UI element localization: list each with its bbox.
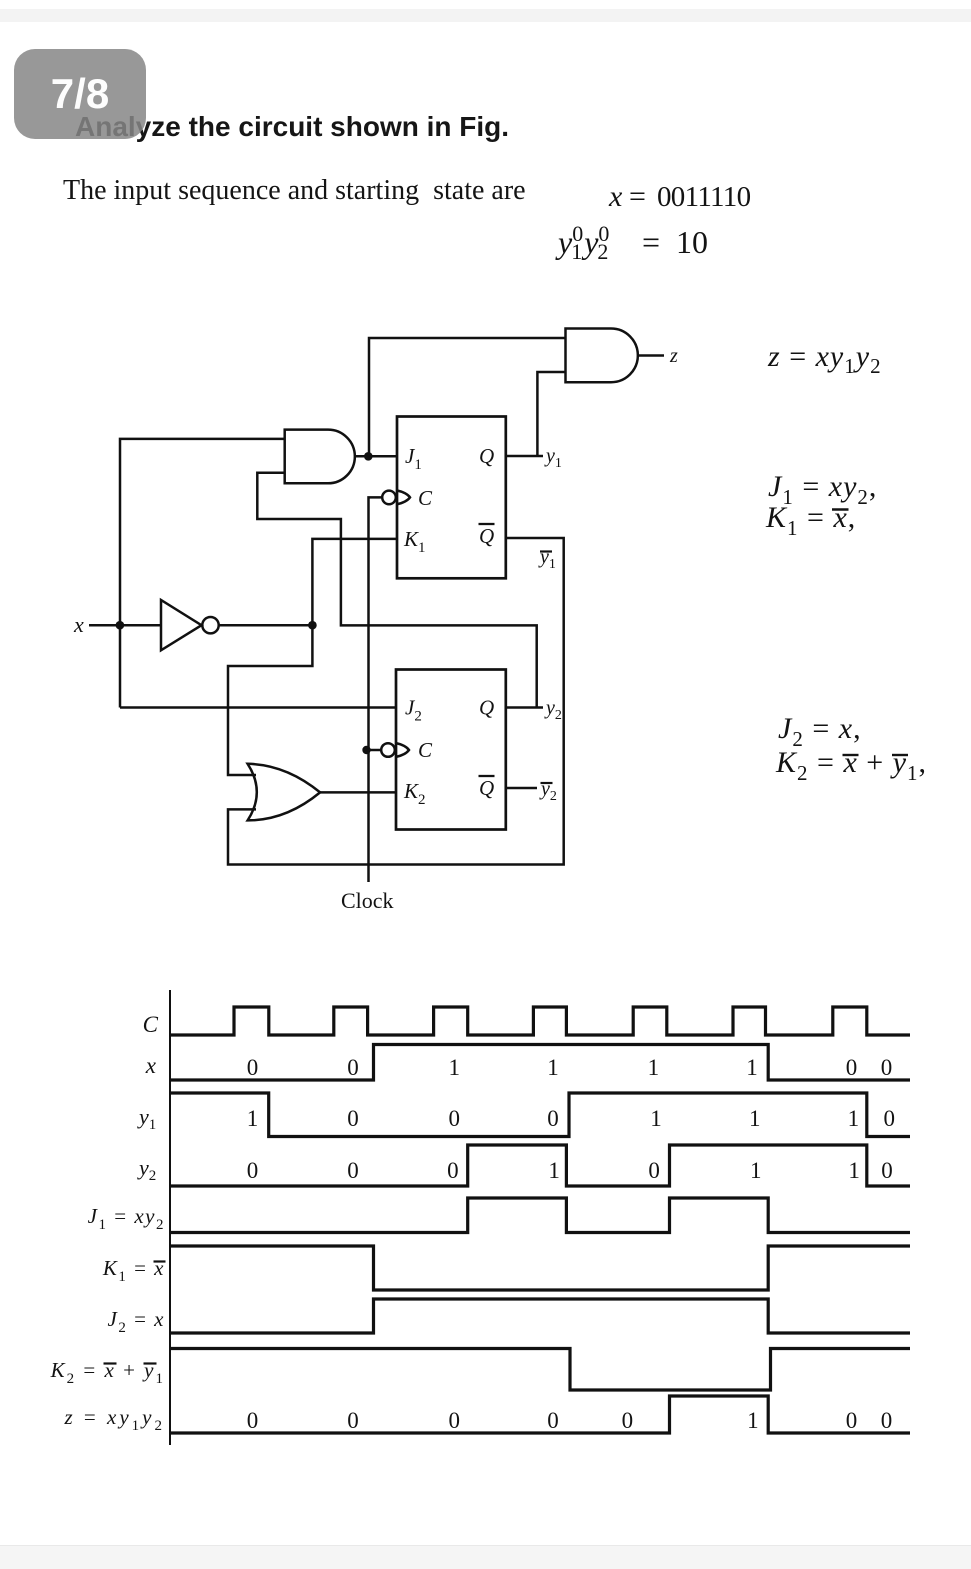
svg-text:J1: J1 (405, 444, 422, 473)
paragraph (63, 175, 526, 207)
label y2bar (539, 778, 557, 804)
row label y2 (137, 1155, 156, 1184)
label y2 (544, 697, 562, 723)
pin label J2 (405, 696, 422, 725)
and-gate A1 feeding J1 (285, 430, 355, 484)
svg-text:C: C (418, 486, 433, 510)
equation J2 = x (778, 712, 862, 751)
svg-text:K1 = x,: K1 = x, (765, 501, 856, 540)
wire J1 node to z-AND top input (369, 338, 566, 456)
equation x = 0011110 (608, 180, 751, 213)
svg-text:y2: y2 (544, 697, 562, 723)
svg-text:y2: y2 (137, 1155, 156, 1184)
row label K2 = xbar + y1bar (50, 1358, 165, 1387)
waveform z (170, 1396, 910, 1433)
pin label Q of U2 (479, 696, 494, 720)
waveform C (170, 1007, 910, 1035)
wire AND-A1 output to J1 (355, 455, 397, 458)
row label C (143, 1012, 159, 1037)
waveform K1 (170, 1246, 910, 1290)
wire x to J2 input (120, 706, 396, 709)
equation K2 = xbar + y1bar (775, 746, 927, 785)
svg-text:x: x (145, 1053, 157, 1078)
wire x to AND-J1 top input (120, 439, 285, 708)
wire inverter output (xbar) (219, 624, 313, 627)
pin label C of U2 (418, 738, 433, 762)
wire y1bar from Qbar of U1 (228, 538, 564, 865)
pin label Qbar of U2 (479, 776, 495, 800)
digits row x (247, 1055, 893, 1080)
svg-text:00000100: 00000100 (247, 1408, 893, 1433)
page badge 7/8 (14, 49, 146, 139)
node J1 input junction (364, 452, 373, 461)
wire z output (638, 354, 664, 357)
svg-text:Clock: Clock (341, 888, 394, 913)
svg-text:y1: y1 (538, 546, 556, 572)
row label K1 = xbar (102, 1256, 166, 1285)
waveform J1 (170, 1198, 910, 1233)
pin label Q of U1 (479, 444, 494, 468)
row label z = xy1y2 (63, 1405, 165, 1434)
flip-flop U1 (JK) box (397, 417, 506, 579)
svg-text:y01y02=10: y01y02=10 (555, 221, 708, 264)
node x input junction (116, 621, 125, 630)
flip-flop U2 (JK) box (396, 670, 506, 830)
digits row z (247, 1408, 893, 1433)
node xbar junction (308, 621, 317, 630)
clock bubble of U1 (382, 490, 410, 504)
wire y1 output of U1 (506, 455, 543, 458)
pin label K1 (403, 527, 426, 556)
equation z = x y1 y2 (767, 340, 882, 378)
svg-text:x: x (73, 612, 84, 637)
svg-text:y1: y1 (137, 1104, 156, 1133)
svg-text:Q: Q (479, 444, 494, 468)
wire x input (89, 624, 161, 627)
wire xbar to OR top input (228, 625, 312, 775)
and-gate A2 producing z (566, 329, 638, 383)
label Clock (341, 888, 394, 913)
svg-text:K1: K1 (403, 527, 426, 556)
node clock junction at U2 (362, 746, 381, 754)
svg-text:J1 = xy2: J1 = xy2 (88, 1204, 165, 1233)
digits row y1 (247, 1106, 895, 1131)
equation y1^0 y2^0 = 10 (555, 221, 708, 264)
svg-text:Q: Q (479, 524, 494, 548)
label z (669, 345, 678, 367)
waveform y1 (170, 1093, 910, 1137)
digits row y2 (247, 1158, 893, 1183)
row label J2 = x (108, 1307, 166, 1336)
svg-text:00111100: 00111100 (247, 1055, 893, 1080)
svg-text:Q: Q (479, 696, 494, 720)
svg-text:Q: Q (479, 776, 494, 800)
pin label Qbar of U1 (479, 524, 495, 548)
wire xbar to K1 input (312, 539, 397, 625)
inverter (NOT gate) on x (161, 600, 219, 650)
equation J1 = x y2 (768, 470, 877, 509)
wire y2bar stub from Qbar of U2 (506, 787, 537, 790)
equation K1 = xbar (765, 501, 856, 540)
svg-text:00010110: 00010110 (247, 1158, 893, 1183)
or-gate O1 feeding K2 (248, 764, 321, 821)
label y1 (544, 445, 562, 471)
svg-text:z = xy1y2: z = xy1y2 (63, 1405, 165, 1434)
svg-text:y1: y1 (544, 445, 562, 471)
svg-text:x=0011110: x=0011110 (608, 180, 751, 213)
clock bubble of U2 (381, 743, 409, 757)
waveform x (170, 1045, 910, 1081)
wire y2 output of U2 (506, 706, 543, 709)
svg-text:K2: K2 (403, 779, 426, 808)
svg-text:z: z (669, 345, 678, 367)
pin label J1 (405, 444, 422, 473)
row label x (145, 1053, 157, 1078)
row label y1 (137, 1104, 156, 1133)
svg-text:K2 = x + y1: K2 = x + y1 (50, 1358, 165, 1387)
svg-text:J2 = x: J2 = x (108, 1307, 166, 1336)
timing axis (169, 990, 171, 1445)
row label J1 = xy2 (88, 1204, 165, 1233)
heading text (75, 111, 509, 143)
svg-text:10001110: 10001110 (247, 1106, 895, 1131)
waveform K2 (170, 1349, 910, 1391)
svg-text:C: C (418, 738, 433, 762)
waveform y2 (170, 1145, 910, 1186)
wire clock net (369, 497, 383, 882)
svg-text:J2: J2 (405, 696, 422, 725)
label y1bar (538, 546, 556, 572)
svg-text:C: C (143, 1012, 159, 1037)
wire y2 feedback to AND-A1 bottom input (257, 473, 536, 708)
svg-text:z = xy1y2: z = xy1y2 (767, 340, 882, 378)
wire y1 to z-AND bottom input (537, 372, 565, 456)
label x input (73, 612, 84, 637)
waveform J2 (170, 1299, 910, 1333)
pin label K2 (403, 779, 426, 808)
svg-text:K1 = x: K1 = x (102, 1256, 165, 1285)
svg-text:K2 = x + y1,: K2 = x + y1, (775, 746, 927, 785)
wire OR output to K2 (320, 791, 396, 794)
pin label C of U1 (418, 486, 433, 510)
